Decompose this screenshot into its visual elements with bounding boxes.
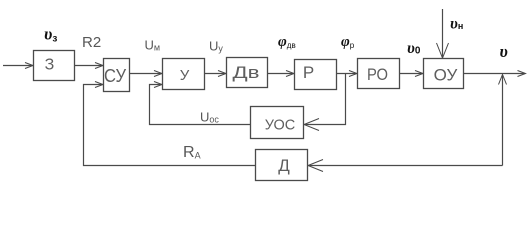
svg-text:υн: υн	[450, 16, 463, 33]
svg-text:Uос: Uос	[200, 110, 219, 125]
svg-text:φр: φр	[341, 34, 355, 50]
svg-text:Дв: Дв	[233, 63, 260, 82]
svg-text:R2: R2	[82, 34, 101, 51]
svg-text:РО: РО	[367, 65, 388, 84]
svg-text:υз: υз	[44, 25, 57, 45]
svg-text:Д: Д	[278, 156, 290, 175]
svg-text:ОУ: ОУ	[434, 66, 458, 85]
svg-text:У: У	[180, 67, 190, 84]
svg-text:З: З	[45, 57, 55, 74]
svg-text:υ0: υ0	[407, 40, 421, 57]
svg-text:φдв: φдв	[278, 34, 296, 50]
svg-text:Uм: Uм	[145, 38, 161, 53]
svg-text:υ: υ	[500, 42, 508, 61]
svg-text:УОС: УОС	[265, 118, 295, 134]
svg-text:Uу: Uу	[209, 39, 223, 54]
svg-text:СУ: СУ	[104, 66, 127, 86]
svg-text:RА: RА	[183, 144, 201, 161]
svg-text:Р: Р	[303, 63, 314, 82]
